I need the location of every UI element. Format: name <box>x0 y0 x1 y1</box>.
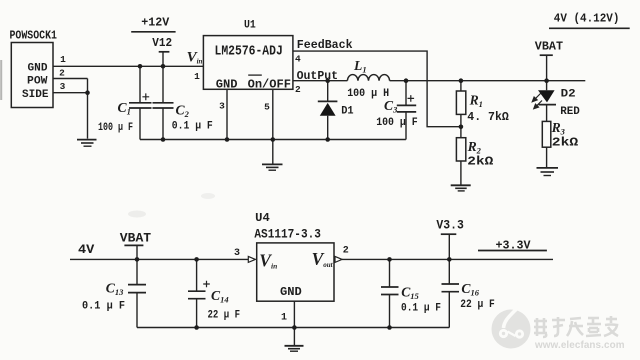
svg-text:U4: U4 <box>255 212 270 225</box>
svg-text:2: 2 <box>295 84 301 95</box>
svg-text:1: 1 <box>281 313 287 324</box>
svg-text:D2: D2 <box>561 89 576 101</box>
svg-text:U1: U1 <box>244 20 256 32</box>
svg-text:100 μ F: 100 μ F <box>98 122 133 134</box>
svg-text:GND: GND <box>280 285 302 299</box>
svg-text:FeedBack: FeedBack <box>297 38 353 52</box>
svg-text:100 μ F: 100 μ F <box>376 117 418 129</box>
svg-text:www.elecfans.com: www.elecfans.com <box>534 340 625 351</box>
svg-text:22 μ F: 22 μ F <box>460 299 495 311</box>
svg-text:5: 5 <box>264 102 270 113</box>
svg-text:3: 3 <box>219 101 225 112</box>
svg-text:LM2576-ADJ: LM2576-ADJ <box>215 44 283 60</box>
svg-text:+12V: +12V <box>141 15 170 29</box>
svg-text:0.1 μ F: 0.1 μ F <box>401 302 441 314</box>
svg-text:GND: GND <box>28 62 48 74</box>
svg-text:100 μ H: 100 μ H <box>347 88 389 100</box>
svg-text:2kΩ: 2kΩ <box>467 155 493 168</box>
svg-text:4V (4.12V): 4V (4.12V) <box>554 12 620 26</box>
svg-text:POWSOCK1: POWSOCK1 <box>10 29 58 43</box>
svg-text:VBAT: VBAT <box>120 231 152 246</box>
svg-text:2kΩ: 2kΩ <box>552 137 579 150</box>
svg-text:3: 3 <box>234 248 240 259</box>
svg-text:SIDE: SIDE <box>22 89 49 101</box>
svg-text:+3.3V: +3.3V <box>496 238 532 252</box>
svg-text:0.1 μ F: 0.1 μ F <box>172 121 213 133</box>
svg-text:POW: POW <box>27 76 48 88</box>
svg-text:GND: GND <box>216 78 238 92</box>
svg-text:1: 1 <box>60 54 66 65</box>
svg-text:4. 7kΩ: 4. 7kΩ <box>467 111 509 124</box>
svg-text:4: 4 <box>295 54 301 65</box>
svg-text:VBAT: VBAT <box>535 40 563 54</box>
svg-text:1: 1 <box>194 71 200 82</box>
svg-text:V12: V12 <box>152 37 172 50</box>
svg-text:RED: RED <box>560 106 580 118</box>
svg-text:4V: 4V <box>78 243 95 257</box>
svg-text:2: 2 <box>343 245 349 256</box>
svg-text:3: 3 <box>60 81 66 92</box>
svg-text:On/OFF: On/OFF <box>248 78 291 92</box>
svg-text:D1: D1 <box>341 106 354 118</box>
svg-text:0.1 μ F: 0.1 μ F <box>82 301 125 313</box>
svg-text:OutPut: OutPut <box>297 69 339 83</box>
svg-text:V3.3: V3.3 <box>436 219 463 233</box>
svg-text:AS1117-3.3: AS1117-3.3 <box>254 226 321 241</box>
svg-text:22 μ F: 22 μ F <box>208 309 241 321</box>
svg-text:2: 2 <box>59 67 65 78</box>
